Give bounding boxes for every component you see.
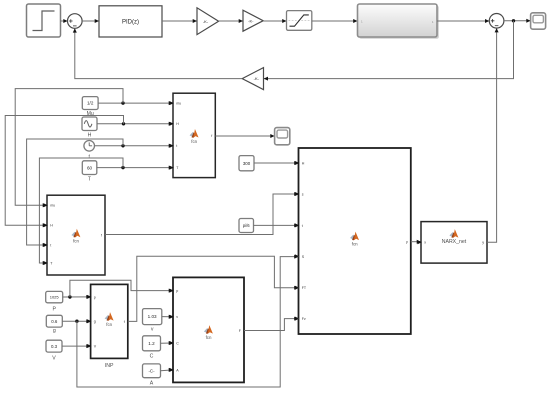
- wire -C- to fcn4 A: [161, 368, 174, 372]
- MATLAB Function block fcn1: [170, 93, 216, 177]
- svg-text:g: g: [94, 320, 96, 324]
- NARX_net block: [418, 222, 488, 264]
- svg-text:fcn: fcn: [106, 322, 112, 327]
- wire 0.3 to INP V: [62, 344, 91, 348]
- svg-text:0.3: 0.3: [51, 344, 58, 349]
- svg-text:A: A: [150, 381, 154, 387]
- svg-text:f: f: [124, 320, 125, 324]
- svg-text:V: V: [52, 355, 56, 361]
- constant 1/2: [82, 97, 98, 110]
- svg-text:fcn: fcn: [191, 139, 197, 144]
- gain K1: [197, 8, 219, 35]
- wire sine to fcn1 H (junction): [97, 122, 173, 126]
- svg-text:y: y: [406, 240, 408, 244]
- gain K2: [243, 10, 263, 31]
- wire sum1 to PID: [82, 19, 99, 23]
- svg-text:-K-: -K-: [203, 19, 209, 24]
- wire plant to sum2: [437, 19, 489, 23]
- svg-text:PID(z): PID(z): [122, 19, 139, 25]
- svg-text:C: C: [150, 353, 154, 359]
- constant 60: [82, 161, 97, 175]
- wrap wire 1/2 junction to fcn2 mu: [15, 89, 123, 208]
- wrap wire clock junction to fcn2 t: [27, 139, 123, 247]
- wire 1.03 to fcn4 v: [162, 315, 173, 319]
- svg-text:H: H: [176, 122, 179, 126]
- wire PID to gain K1: [162, 19, 197, 23]
- wrap wire 60 junction to fcn2 T: [39, 158, 123, 265]
- svg-text:s: s: [302, 192, 304, 196]
- INP subsystem block: [87, 284, 128, 358]
- svg-text:pi/6: pi/6: [243, 223, 250, 228]
- svg-text:1.03: 1.03: [148, 314, 157, 319]
- wire clock to fcn1 t (junction): [95, 144, 174, 148]
- svg-text:C: C: [176, 341, 179, 345]
- svg-text:fcn: fcn: [206, 335, 212, 340]
- wire 0.6 to INP g (junction): [62, 319, 90, 323]
- svg-text:fcn: fcn: [352, 242, 358, 247]
- PID(z) controller block: [99, 6, 162, 37]
- wire 60 to fcn1 T (junction): [97, 166, 173, 170]
- constant 0.3: [46, 340, 62, 352]
- constant -C-: [143, 364, 161, 378]
- svg-text:P: P: [52, 306, 56, 312]
- svg-text:g: g: [53, 328, 56, 334]
- svg-text:mu: mu: [50, 204, 55, 208]
- svg-text:t: t: [176, 144, 177, 148]
- MATLAB Function block (large model): [295, 148, 411, 334]
- svg-text:1/2: 1/2: [87, 101, 94, 106]
- svg-text:NARX_net: NARX_net: [442, 239, 467, 245]
- constant 1.03: [143, 309, 162, 325]
- wire INP out to big fcn input FT (routed around fcn4): [128, 256, 299, 321]
- svg-text:H: H: [302, 161, 305, 165]
- sine wave source: [82, 117, 97, 131]
- wire fcn1 to scope2: [215, 134, 274, 138]
- wire step to sum1: [61, 19, 68, 23]
- sum junction Sum1: [68, 14, 83, 29]
- wire NARX_net up to sum2 bottom input: [487, 28, 499, 242]
- wire 1.2 to fcn4 C: [161, 341, 174, 345]
- constant 1.2: [143, 336, 161, 351]
- wire 300 to big fcn input H: [254, 161, 299, 165]
- wire pi/6 to big fcn input t: [254, 223, 299, 227]
- wire sum2 to scope (with branch junction): [504, 19, 531, 23]
- gain K3 (feedback, points left): [242, 68, 263, 90]
- svg-text:INP: INP: [105, 363, 114, 369]
- wire big fcn to NARX_net: [411, 240, 421, 244]
- constant 0.6: [46, 315, 62, 327]
- plant subsystem (gray gradient block): [358, 4, 439, 39]
- wire 0.6 junction to big fcn input S (bottom route): [77, 255, 299, 387]
- constant pi/6: [239, 219, 254, 233]
- feedback wire from sum2 branch down-left to gain K3: [264, 21, 514, 81]
- step source block: [27, 4, 61, 37]
- svg-text:x: x: [424, 241, 426, 245]
- wrap wire 1025 junction to fcn4 p: [70, 280, 173, 297]
- wire K3 to sum1 bottom input: [73, 28, 242, 78]
- MATLAB Function block fcn4: [170, 277, 245, 382]
- wire fcn4 to big fcn input Fv: [244, 317, 299, 331]
- svg-text:1025: 1025: [50, 295, 60, 300]
- svg-text:f: f: [101, 233, 102, 237]
- svg-text:p: p: [94, 295, 96, 299]
- svg-text:-K-: -K-: [254, 76, 260, 81]
- MATLAB Function block fcn2: [44, 195, 106, 275]
- constant 300: [239, 156, 254, 171]
- wrap wire sine junction to fcn2 H: [5, 116, 123, 228]
- svg-text:-C-: -C-: [148, 368, 155, 373]
- wire K2 to saturation: [263, 19, 286, 23]
- svg-text:60: 60: [87, 165, 93, 170]
- svg-text:1.2: 1.2: [148, 341, 155, 346]
- wire 1/2 to fcn1 mu (junction): [98, 101, 173, 105]
- svg-text:y: y: [482, 241, 484, 245]
- constant 1025: [46, 291, 63, 302]
- wire saturation to plant: [312, 19, 358, 23]
- sum junction Sum2: [489, 13, 504, 28]
- wire K1 to gain K2: [219, 19, 243, 23]
- svg-text:H: H: [88, 132, 92, 138]
- scope block (top right): [531, 13, 546, 29]
- svg-text:Fv: Fv: [302, 317, 306, 321]
- svg-text:v: v: [151, 327, 154, 333]
- svg-text:-K-: -K-: [248, 18, 254, 23]
- scope block (mid): [275, 128, 290, 145]
- svg-text:mu: mu: [176, 102, 181, 106]
- wire fcn2 to big fcn input s: [105, 192, 299, 235]
- svg-text:t: t: [50, 243, 51, 247]
- svg-text:t: t: [302, 224, 303, 228]
- svg-text:H: H: [50, 224, 53, 228]
- wire 1025 to INP p (junction): [63, 295, 91, 299]
- svg-text:p: p: [176, 289, 178, 293]
- svg-text:fcn: fcn: [73, 239, 79, 244]
- saturation block: [287, 11, 312, 31]
- svg-text:f: f: [211, 134, 212, 138]
- svg-text:v: v: [176, 315, 178, 319]
- svg-text:0.6: 0.6: [51, 319, 58, 324]
- clock source: [84, 141, 95, 152]
- svg-text:300: 300: [243, 161, 251, 166]
